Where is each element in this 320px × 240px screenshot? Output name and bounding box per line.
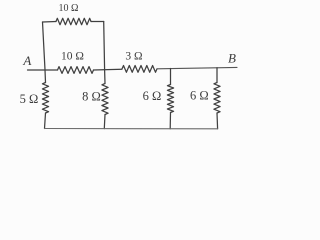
wire: top loop left vertical	[43, 22, 46, 70]
wire: top loop right vertical	[103, 22, 106, 70]
svg-text:A: A	[22, 53, 31, 68]
resistor 6 ohm (shunt, right)	[214, 83, 220, 114]
wire: top loop top-left segment	[43, 21, 57, 24]
resistor 10 ohm (top parallel branch)	[56, 18, 91, 24]
svg-text:10 Ω: 10 Ω	[59, 3, 79, 14]
resistor 6 ohm (shunt, left)	[167, 85, 173, 113]
svg-text:10 Ω: 10 Ω	[61, 50, 84, 62]
wire: 5 ohm leg upper	[44, 70, 47, 83]
wire: main line between 10 ohm and 3 ohm	[94, 68, 123, 71]
resistor 10 ohm (series, A side)	[58, 67, 94, 74]
svg-text:5 Ω: 5 Ω	[20, 92, 39, 106]
resistor 3 ohm (series)	[122, 66, 157, 73]
wire: bottom rail	[45, 128, 218, 130]
svg-text:B: B	[228, 51, 236, 66]
wire: 8 ohm leg lower	[103, 115, 106, 129]
wire: first 6 ohm leg upper	[170, 69, 172, 85]
resistor 5 ohm (shunt)	[42, 83, 48, 114]
wire: 8 ohm leg upper	[104, 70, 106, 84]
svg-text:8 Ω: 8 Ω	[82, 90, 101, 104]
resistor 8 ohm (shunt)	[102, 84, 108, 115]
wire: 5 ohm leg lower	[45, 113, 46, 129]
svg-text:6 Ω: 6 Ω	[190, 89, 209, 103]
node A wire stub	[28, 69, 58, 71]
svg-text:6 Ω: 6 Ω	[143, 89, 162, 103]
wire: second 6 ohm leg upper	[216, 68, 218, 83]
wire: top loop top-right segment	[91, 21, 104, 23]
svg-text:3 Ω: 3 Ω	[125, 51, 142, 63]
wire: first 6 ohm leg lower	[169, 113, 171, 129]
wire: main line from 3 ohm to node B	[157, 67, 237, 68]
wire: second 6 ohm leg lower	[216, 113, 219, 129]
